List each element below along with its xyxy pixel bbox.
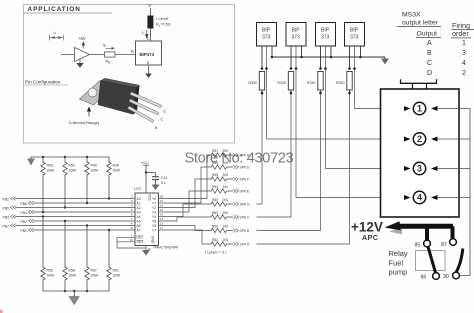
arrow into coil 1 — [404, 106, 411, 111]
relay terminal 86 — [433, 273, 440, 280]
svg-text:13: 13 — [160, 217, 164, 221]
svg-text:200: 200 — [223, 198, 229, 202]
resistor R48 100K — [107, 157, 121, 200]
resistor R62 200 — [211, 242, 233, 246]
svg-text:B: B — [131, 48, 134, 53]
svg-text:Y5: Y5 — [152, 219, 156, 223]
svg-text:PB0: PB0 — [21, 229, 28, 233]
svg-text:1: 1 — [462, 40, 466, 47]
wire Y0 to row SPK H — [165, 155, 212, 199]
svg-text:86: 86 — [421, 275, 427, 281]
svg-text:R53: R53 — [47, 164, 53, 168]
capacitor C14 0.1 — [152, 176, 159, 178]
svg-text:BIP: BIP — [321, 28, 330, 34]
wire to relay 85 — [425, 226, 429, 240]
svg-text:373: 373 — [350, 35, 359, 41]
coil pack — [381, 79, 471, 275]
svg-text:B: B — [427, 50, 432, 57]
input row PB4 — [21, 210, 131, 215]
svg-text:12: 12 — [160, 222, 164, 226]
svg-text:V: V — [148, 3, 151, 8]
svg-text:C: C — [147, 36, 150, 41]
svg-text:16: 16 — [160, 204, 164, 208]
svg-text:PB1: PB1 — [3, 197, 10, 201]
package lead C — [129, 99, 159, 115]
svg-text:R62: R62 — [212, 238, 218, 242]
svg-text:A5: A5 — [137, 219, 141, 223]
svg-text:1: 1 — [417, 104, 422, 114]
svg-text:11: 11 — [160, 226, 163, 230]
svg-text:R61: R61 — [113, 269, 119, 273]
svg-text:R49: R49 — [91, 164, 97, 168]
resistor R52 100K — [63, 156, 77, 209]
transistor Q2 BIP373 — [286, 23, 306, 70]
svg-text:100K: 100K — [69, 169, 78, 173]
svg-text:R330: R330 — [277, 81, 286, 85]
svg-text:Store No: 430723: Store No: 430723 — [185, 151, 294, 167]
resistor RB — [105, 52, 116, 57]
+12V feed and relay — [351, 220, 463, 281]
emitter wire — [148, 65, 150, 74]
package lead E — [130, 92, 162, 108]
svg-text:order: order — [452, 29, 469, 38]
resistor R57 100K — [85, 224, 99, 292]
svg-text:3: 3 — [417, 164, 422, 174]
wire Y4 to row SPK G — [165, 204, 212, 217]
svg-text:SPK A: SPK A — [240, 243, 250, 247]
svg-text:IC: IC — [142, 31, 145, 36]
svg-text:PB3: PB3 — [3, 215, 10, 219]
IC right labels Y0-Y7 — [152, 197, 156, 233]
junction dots collector pins — [265, 67, 356, 70]
emitter ground rail — [272, 56, 385, 58]
svg-text:MS3X: MS3X — [402, 12, 421, 19]
svg-text:Y1: Y1 — [152, 201, 156, 205]
svg-text:SPK C: SPK C — [240, 216, 251, 220]
svg-text:0.1: 0.1 — [161, 181, 166, 185]
connector SPK F — [234, 177, 239, 180]
svg-text:OE2: OE2 — [137, 240, 144, 244]
svg-text:L=4mH: L=4mH — [156, 17, 169, 21]
svg-text:R60: R60 — [212, 198, 218, 202]
arrow into coil 3 — [404, 166, 411, 171]
svg-text:PB4: PB4 — [21, 211, 28, 215]
svg-text:Pin Configuration: Pin Configuration — [25, 80, 61, 85]
main sheet — [3, 156, 131, 305]
pull-up rail top — [31, 156, 109, 158]
svg-text:100K: 100K — [47, 169, 56, 173]
svg-text:R52: R52 — [69, 164, 75, 168]
svg-text:Relay: Relay — [389, 249, 408, 258]
arrow feed coil 2 — [431, 137, 438, 142]
MS3X output table — [397, 12, 474, 77]
+12V arrow shadow — [389, 228, 402, 235]
relay terminal 87 — [450, 239, 457, 246]
relay contact blade 30 — [456, 249, 463, 273]
svg-text:373: 373 — [292, 35, 301, 41]
wire BIP4 collector to coil 1 — [355, 46, 405, 109]
wire Y3 to row SPK E — [165, 191, 212, 212]
resistor R59 200 — [211, 228, 233, 232]
input row PB0 — [21, 228, 131, 233]
svg-text:R57: R57 — [91, 269, 97, 273]
svg-text:3: 3 — [462, 50, 466, 57]
svg-text:100K: 100K — [69, 274, 78, 278]
svg-text:Y4: Y4 — [152, 215, 156, 219]
coil terminal 2 — [413, 133, 425, 145]
base wire — [90, 54, 105, 56]
wire BIP3 collector to coil 3 — [326, 46, 405, 169]
svg-text:BIP373: BIP373 — [140, 52, 155, 57]
coil terminal 4 — [413, 191, 425, 203]
arrow feed coil 3 — [431, 166, 438, 171]
svg-text:200: 200 — [223, 185, 229, 189]
wire supply to coil — [150, 8, 152, 16]
APPLICATION datasheet inset box — [24, 3, 235, 143]
input wire — [61, 54, 75, 56]
svg-text:100K: 100K — [91, 169, 100, 173]
resistor R330 (Q3 base) — [307, 72, 323, 95]
svg-text:Y7: Y7 — [152, 228, 156, 232]
wire SPK B to R330#3 — [257, 93, 321, 231]
wire Y2 to row SPK F — [165, 179, 212, 208]
svg-text:R56: R56 — [47, 269, 53, 273]
svg-text:100K: 100K — [91, 274, 100, 278]
svg-text:C: C — [427, 60, 432, 67]
svg-text:19: 19 — [130, 238, 134, 242]
resistor R330 (Q2 base) — [277, 72, 293, 95]
resistor R49 100K — [85, 156, 99, 204]
svg-text:85: 85 — [415, 243, 421, 249]
wire SPK A to R330#4 — [257, 93, 350, 244]
supply bus right — [438, 109, 471, 276]
svg-text:Output: Output — [417, 31, 438, 38]
svg-text:R59: R59 — [212, 224, 218, 228]
connector SPK G — [234, 202, 239, 205]
spark output rows — [165, 149, 251, 255]
svg-text:100K: 100K — [113, 169, 122, 173]
resistor R330 (Q1 base) — [248, 72, 264, 95]
pin numbers right — [160, 195, 164, 231]
svg-text:+5V: +5V — [78, 36, 86, 41]
input row PB6 — [21, 201, 131, 206]
ground under buffer — [79, 59, 81, 63]
arrow into coil 4 — [404, 195, 411, 200]
svg-text:R330: R330 — [248, 81, 257, 85]
coil terminal 3 — [413, 162, 425, 174]
transistor Q3 BIP373 — [316, 23, 336, 70]
coil terminal 1 — [413, 102, 425, 114]
svg-text:74AHCT541PWR: 74AHCT541PWR — [153, 245, 179, 249]
svg-text:C14: C14 — [161, 176, 167, 180]
IC pin stubs right — [159, 199, 165, 231]
svg-text:4: 4 — [417, 193, 422, 203]
svg-text:R54: R54 — [212, 185, 218, 189]
svg-text:2: 2 — [417, 134, 422, 144]
svg-text:SPK G: SPK G — [240, 203, 251, 207]
svg-text:A1: A1 — [137, 201, 141, 205]
svg-text:SPK B: SPK B — [240, 229, 251, 233]
TO-220 package body — [101, 78, 140, 88]
svg-text:Y0: Y0 — [152, 197, 156, 201]
svg-text:200: 200 — [223, 211, 229, 215]
svg-text:IB: IB — [103, 43, 106, 48]
resistor R56 100K — [41, 215, 55, 291]
svg-text:OE1: OE1 — [137, 236, 144, 240]
svg-text:A: A — [427, 40, 432, 47]
GND pin wire — [145, 246, 147, 251]
svg-text:( Lphem =- 5 ): ( Lphem =- 5 ) — [205, 251, 226, 255]
resistor R55 200 — [211, 177, 233, 181]
resistor R61 100K — [107, 229, 121, 291]
wire SPK G to R330#1 — [257, 93, 263, 204]
coil pack body — [381, 89, 460, 217]
input row PB1 — [3, 197, 131, 202]
IC pin stubs left — [130, 199, 135, 231]
svg-text:18: 18 — [160, 195, 164, 199]
svg-text:BIP: BIP — [350, 28, 359, 34]
wire VCC to C14 — [146, 172, 156, 174]
+12V arrow — [385, 221, 401, 230]
svg-text:R55: R55 — [212, 173, 218, 177]
svg-text:VCC: VCC — [141, 161, 149, 165]
wire BIP2 collector to coil 4 — [296, 46, 404, 198]
arrow feed coil 1 — [431, 106, 438, 111]
input row PB5 — [3, 206, 131, 211]
svg-text:A6: A6 — [137, 224, 141, 228]
wire OE tie to ground — [117, 237, 146, 248]
svg-text:A4: A4 — [137, 215, 141, 219]
svg-text:output letter: output letter — [402, 20, 439, 27]
wire coil to collector — [150, 29, 152, 42]
wire Y7 to row SPK A — [165, 230, 212, 244]
resistor R58 100K — [63, 220, 77, 292]
svg-text:R63: R63 — [212, 211, 218, 215]
svg-text:R330: R330 — [307, 81, 316, 85]
svg-text:87: 87 — [441, 242, 447, 248]
ground bottom rail — [73, 290, 75, 292]
connector SPK A — [234, 242, 239, 245]
svg-text:200: 200 — [223, 224, 229, 228]
resistor R51 200 — [211, 153, 233, 157]
wire BIP1 collector to coil 2 — [267, 46, 405, 139]
svg-text:Y6: Y6 — [152, 224, 156, 228]
wire RB to base — [115, 54, 136, 56]
pull-down rail bottom — [43, 290, 109, 292]
svg-text:VCC: VCC — [147, 194, 151, 202]
input row PB3 — [3, 215, 131, 220]
resistor R60 200 — [211, 202, 233, 206]
resistor R50 200 — [211, 165, 233, 169]
svg-text:15: 15 — [160, 208, 164, 212]
svg-text:4: 4 — [462, 60, 466, 67]
transistor U BIP373 — [136, 41, 162, 65]
transistor Q1 BIP373 — [257, 23, 277, 70]
buffer driver triangle — [75, 48, 90, 62]
connector SPK B — [234, 229, 239, 232]
connector SPK H — [234, 153, 239, 156]
resistor R63 200 — [211, 215, 233, 219]
svg-text:A3: A3 — [137, 210, 141, 214]
relay terminal 85 — [424, 240, 431, 247]
svg-text:373: 373 — [321, 35, 330, 41]
pin numbers left — [131, 195, 133, 231]
resistor R330 (Q4 base) — [336, 72, 352, 95]
svg-text:R58: R58 — [69, 269, 75, 273]
svg-text:100K: 100K — [113, 274, 122, 278]
svg-text:C: C — [161, 118, 164, 122]
svg-text:100K: 100K — [47, 274, 56, 278]
svg-text:Y3: Y3 — [152, 210, 156, 214]
input row PB7 — [3, 224, 131, 229]
svg-text:A0: A0 — [137, 197, 141, 201]
svg-text:PB5: PB5 — [3, 206, 10, 210]
package lead B — [128, 106, 154, 123]
svg-text:R48: R48 — [113, 164, 119, 168]
thick 12V bus — [399, 224, 453, 229]
svg-text:Fuel: Fuel — [389, 259, 404, 268]
wire Y1 to row SPK D — [165, 167, 212, 203]
connector SPK D — [234, 165, 239, 168]
connector SPK E — [234, 189, 239, 192]
svg-text:BIP: BIP — [292, 28, 301, 34]
wire Y5 to row SPK C — [165, 217, 212, 221]
transistor Q4 BIP373 — [345, 23, 365, 70]
arrow into coil 2 — [404, 137, 411, 142]
IC left labels A0-A7 — [137, 197, 141, 233]
ground emitter rail — [384, 57, 386, 59]
svg-text:SPK E: SPK E — [240, 190, 251, 194]
svg-text:APPLICATION: APPLICATION — [28, 6, 81, 13]
svg-text:D: D — [427, 70, 432, 77]
svg-text:PB7: PB7 — [3, 224, 10, 228]
svg-text:+12V: +12V — [351, 220, 383, 235]
relay coil box — [416, 251, 446, 271]
resistor R53 100K — [41, 156, 55, 213]
ground rail arrow — [30, 157, 32, 159]
arrow feed coil 4 — [431, 195, 438, 200]
igniter transistors — [248, 23, 389, 95]
connector SPK C — [234, 215, 239, 218]
svg-text:pump: pump — [389, 268, 408, 277]
relay terminal 30 — [453, 272, 460, 279]
wire to relay 87 — [451, 226, 455, 238]
svg-text:A7: A7 — [137, 228, 141, 232]
svg-text:GND: GND — [151, 236, 155, 244]
relay armature 85-86 — [428, 247, 436, 273]
ground C14 — [155, 180, 157, 185]
resistor R54 200 — [211, 189, 233, 193]
svg-text:R330: R330 — [336, 81, 345, 85]
svg-text:PB6: PB6 — [21, 202, 28, 206]
svg-text:BIP: BIP — [262, 28, 271, 34]
svg-text:PB2: PB2 — [21, 220, 28, 224]
harness wires SPK to igniters — [257, 46, 405, 244]
ignition coil L — [147, 16, 153, 29]
svg-text:U13: U13 — [134, 187, 141, 191]
svg-text:Collector(Flange): Collector(Flange) — [69, 120, 100, 125]
svg-text:17: 17 — [160, 199, 164, 203]
ground under IC — [142, 250, 150, 256]
svg-text:200: 200 — [223, 238, 229, 242]
svg-text:Y2: Y2 — [152, 206, 156, 210]
coil pack connector — [401, 79, 437, 89]
svg-text:373: 373 — [262, 35, 271, 41]
svg-text:APC: APC — [362, 235, 379, 242]
buffer IC U13 74AHCT541PWR — [117, 161, 179, 256]
svg-text:SPK F: SPK F — [240, 178, 250, 182]
input row PB2 — [21, 219, 131, 224]
red mark — [0, 310, 3, 313]
TO-220 package tab — [80, 81, 115, 106]
label Collector(Flange) — [87, 107, 91, 112]
ground emitter — [145, 74, 152, 79]
svg-text:200: 200 — [223, 173, 229, 177]
wire SPK C to R330#2 — [257, 93, 292, 217]
svg-text:A2: A2 — [137, 206, 141, 210]
svg-text:2: 2 — [462, 70, 466, 77]
svg-text:14: 14 — [160, 213, 164, 217]
svg-text:E: E — [147, 60, 150, 65]
svg-text:30: 30 — [443, 274, 449, 280]
wire Y6 to row SPK B — [165, 226, 212, 231]
